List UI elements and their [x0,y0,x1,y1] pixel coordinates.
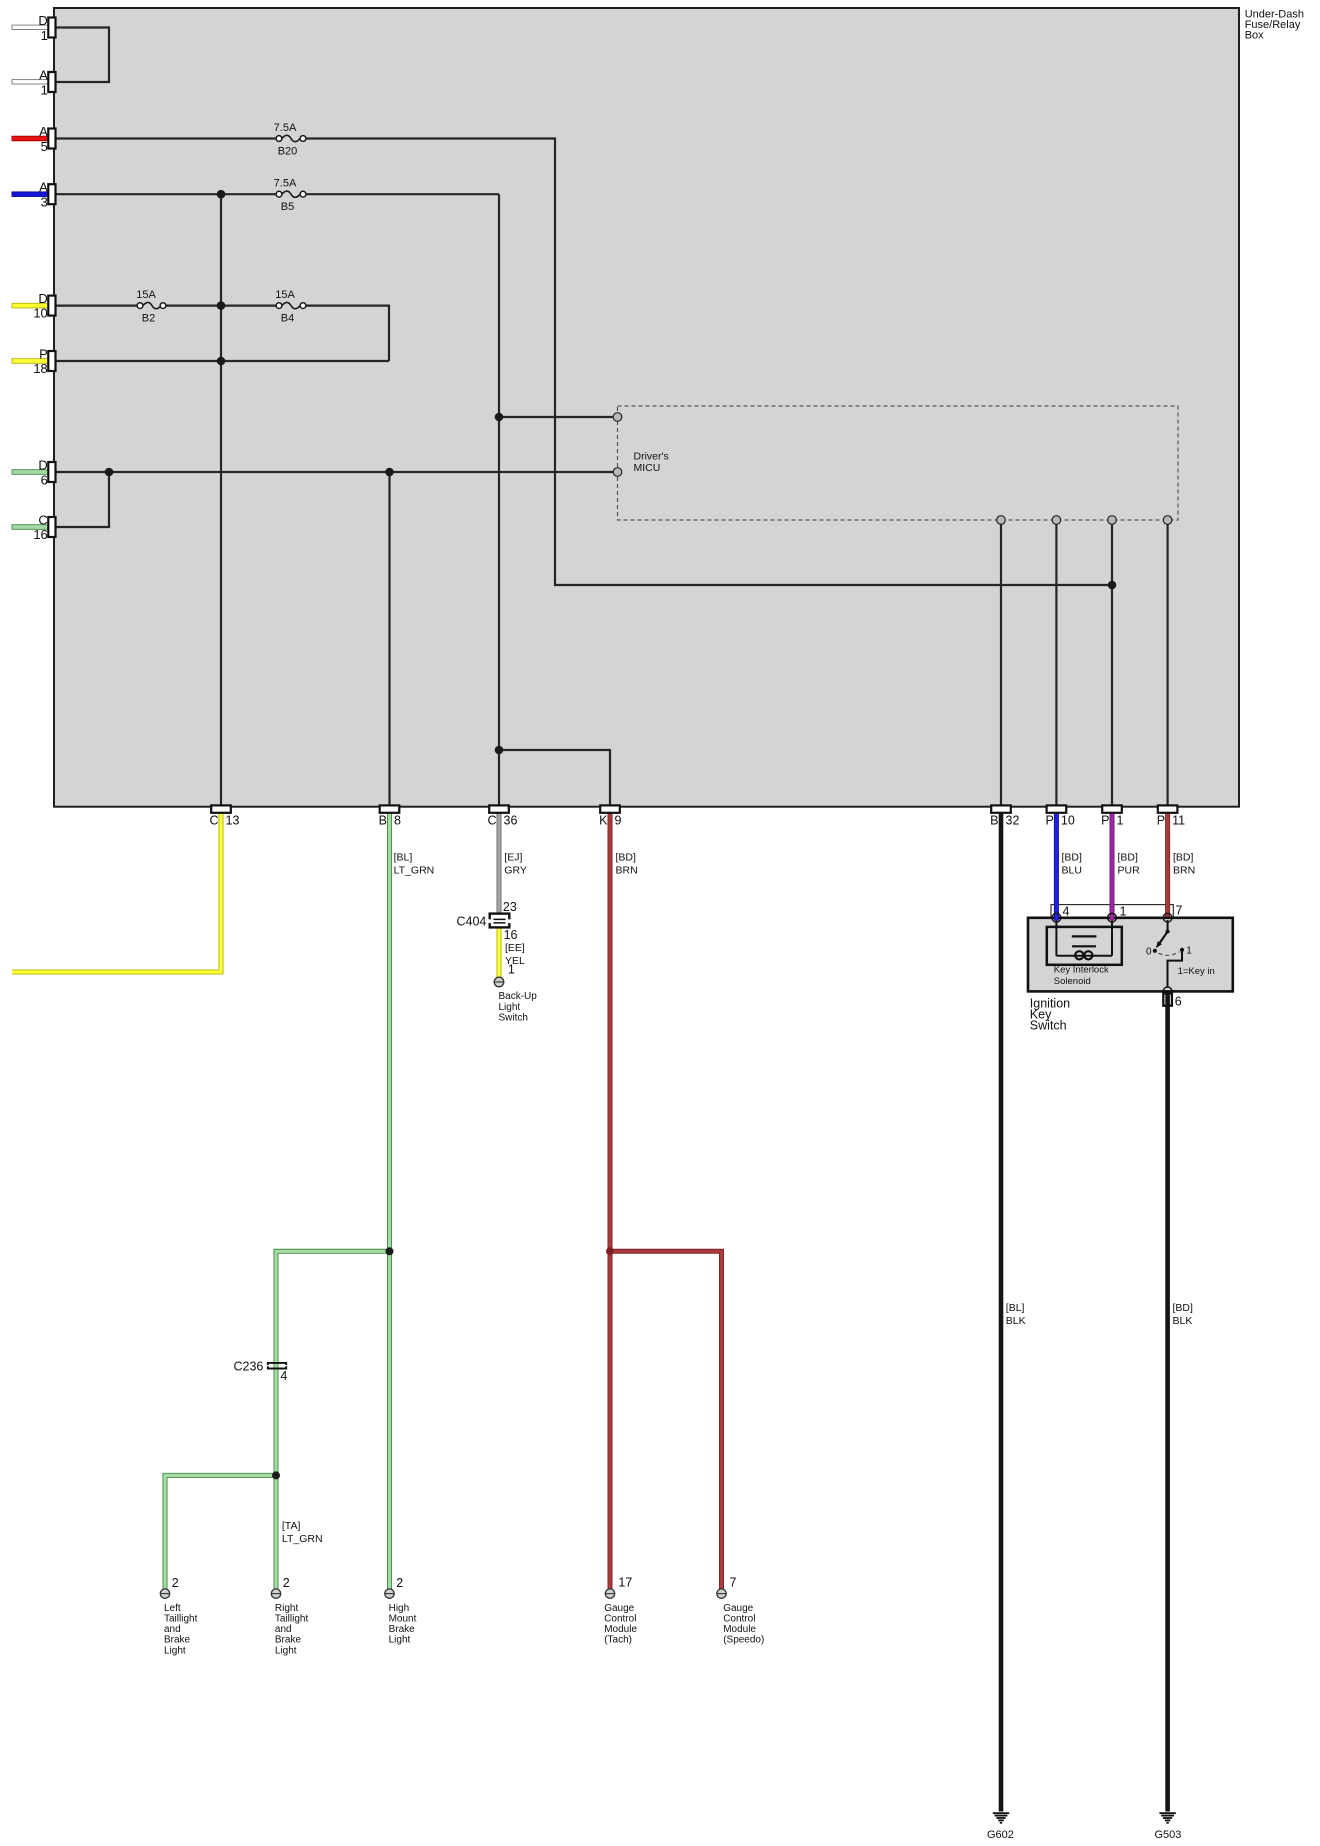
svg-text:15A: 15A [275,289,295,301]
svg-text:P: P [39,347,48,362]
wire fuse B4 output loop to P18 row [306,306,389,361]
wire fuse B2 to fuse B4 [166,305,276,307]
svg-text:17: 17 [618,1576,632,1590]
svg-text:8: 8 [394,814,401,828]
MICU pin lower left [613,468,622,477]
svg-text:IgnitionKeySwitch: IgnitionKeySwitch [1030,996,1070,1032]
svg-text:4: 4 [1063,904,1070,918]
svg-text:1: 1 [1117,814,1124,828]
wire MICU pin to connector P1 [1111,524,1113,806]
under-dash fuse/relay box U100 [54,8,1239,807]
label connector A1 [39,68,48,98]
connector D1 at left edge [48,18,55,38]
svg-text:Under-DashFuse/RelayBox: Under-DashFuse/RelayBox [1245,8,1304,41]
svg-text:36: 36 [504,814,518,828]
wire P18 row [55,360,390,362]
svg-text:D: D [38,458,47,473]
ground G602 [993,1813,1009,1823]
wire MICU pin to connector B32 [1000,524,1002,806]
svg-text:23: 23 [503,900,517,914]
svg-text:C236: C236 [234,1360,264,1374]
node junction green taillight branch [272,1471,280,1479]
svg-text:7: 7 [730,1576,737,1590]
svg-text:2: 2 [172,1576,179,1590]
switch pin 4 [1052,913,1061,922]
svg-text:A: A [39,68,48,83]
wire brown from K9 to Gauge Control Module Tach [608,811,613,1590]
label connector A3 [39,180,48,210]
wire red stub pin A5 [12,136,48,141]
wire white stub pin D1 [12,25,48,29]
connector P1 [1102,805,1122,812]
node junction B20 to P1 [1108,581,1117,590]
wire blue from P10 to switch pin 4 [1054,811,1059,921]
wire light-green stub pin D6 [12,470,48,475]
svg-text:1=Key in: 1=Key in [1178,966,1215,977]
svg-text:RightTaillightandBrakeLight: RightTaillightandBrakeLight [275,1603,309,1656]
wire yellow stub pin P18 [12,359,48,364]
wire D10 row to fuse B2 [55,305,138,307]
connector D10 at left edge [48,296,55,316]
node junction MICU upper branch [495,413,504,422]
svg-text:1: 1 [41,28,48,43]
svg-text:2: 2 [396,1576,403,1590]
svg-text:C: C [38,513,47,528]
ground G503 [1159,1813,1175,1823]
svg-text:3: 3 [41,195,48,210]
terminal left taillight [160,1589,169,1598]
wire brown branch to Gauge Control Module Speedo [608,1251,722,1589]
svg-text:10: 10 [1061,814,1075,828]
wire internal loop D1 to A1 [55,28,110,83]
svg-text:[BD]BLK: [BD]BLK [1173,1302,1194,1327]
svg-text:D: D [38,291,47,306]
ignition key switch connector strip [1051,905,1173,918]
svg-text:[TA]LT_GRN: [TA]LT_GRN [282,1520,323,1545]
connector C236 [268,1363,286,1369]
MICU pin bottom P1 [1108,516,1117,525]
wire vertical B5 output to connector C36 [498,194,500,806]
svg-text:Back-UpLightSwitch: Back-UpLightSwitch [499,991,538,1023]
svg-text:[BD]BRN: [BD]BRN [1173,852,1195,877]
svg-text:32: 32 [1006,814,1020,828]
terminal gauge control module tach [605,1589,614,1598]
wire MICU pin to connector P10 [1055,524,1057,806]
wire D6 row to MICU lower pin [55,471,614,473]
label connector D1 [38,13,47,43]
switch contact 1 [1180,948,1184,952]
svg-text:P: P [1157,814,1165,828]
wire contact 1 to pin 6 [1168,950,1183,988]
svg-text:16: 16 [504,928,518,942]
svg-text:18: 18 [33,361,47,376]
wire vertical D6 node to connector B8 [388,472,390,806]
switch pin 1 [1108,913,1117,922]
svg-text:[BD]PUR: [BD]PUR [1118,852,1141,877]
svg-text:4: 4 [280,1369,287,1383]
wire fuse B20 output to node P1 [306,139,1112,586]
svg-text:G602: G602 [987,1829,1014,1841]
svg-text:HighMountBrakeLight: HighMountBrakeLight [389,1603,417,1646]
connector P18 at left edge [48,351,55,371]
svg-text:6: 6 [41,473,48,488]
terminal back-up light switch [494,977,504,987]
wire fuse B5 output [306,193,499,195]
switch throw dashed arc [1159,952,1180,955]
connector C13 [211,805,231,812]
wire C16 row to D6 node [55,472,110,527]
svg-text:9: 9 [615,814,622,828]
wire black through pin 6 connector [1165,993,1170,1007]
terminal right taillight [271,1589,280,1598]
node junction P18 row [217,357,226,366]
wire branch to MICU upper pin [499,416,613,418]
svg-text:B20: B20 [278,146,298,158]
label connector C16 [33,513,47,543]
wire brown from P11 to switch pin 7 [1165,811,1170,917]
node junction D10 row [217,301,226,310]
svg-text:B5: B5 [281,201,294,213]
svg-text:B: B [379,814,387,828]
connector D6 at left edge [48,462,55,482]
switch pin 6 circle [1163,987,1172,996]
svg-text:15A: 15A [136,289,156,301]
svg-text:7.5A: 7.5A [274,122,297,134]
connector C36 [489,805,509,812]
svg-text:[BD]BLU: [BD]BLU [1062,852,1083,877]
connector B32 [991,805,1011,812]
svg-text:7: 7 [1176,904,1183,918]
svg-text:B4: B4 [281,313,294,325]
node junction C16 branch [105,468,114,477]
node junction K9 branch [495,746,504,755]
terminal high mount brake light [385,1589,394,1598]
connector pin 6 [1163,994,1172,1006]
switch contact 0 [1153,949,1157,953]
svg-text:0: 0 [1146,946,1152,957]
svg-text:7.5A: 7.5A [274,178,297,190]
svg-text:1: 1 [41,83,48,98]
svg-text:P: P [1046,814,1054,828]
connector A1 at left edge [48,72,55,92]
fuse B20 7.5A [274,122,306,158]
svg-text:C: C [487,814,496,828]
MICU pin bottom P11 [1163,516,1172,525]
svg-text:C: C [209,814,218,828]
label connector D10 [33,291,47,321]
svg-text:10: 10 [33,306,47,321]
svg-text:5: 5 [41,139,48,154]
fuse B2 15A [136,289,166,325]
svg-text:A: A [39,124,48,139]
svg-text:K: K [599,814,608,828]
connector A3 at left edge [48,184,55,204]
svg-text:B2: B2 [142,313,155,325]
MICU pin bottom B32 [997,516,1006,525]
svg-text:A: A [39,180,48,195]
svg-text:P: P [1101,814,1109,828]
svg-text:1: 1 [1120,904,1127,918]
svg-text:11: 11 [1172,814,1185,828]
svg-text:[EJ]GRY: [EJ]GRY [504,852,527,877]
wire black from B32 to G602 [999,811,1004,1812]
switch moving contact from pin 7 [1156,920,1170,948]
ignition key switch body [1028,918,1233,992]
wire yellow from C13 [12,811,221,972]
wire light-green from B8 to High Mount Brake Light [387,811,392,1590]
connector C16 at left edge [48,517,55,537]
connector B8 [380,805,400,812]
MICU pin bottom P10 [1052,516,1061,525]
svg-text:GaugeControlModule(Speedo): GaugeControlModule(Speedo) [723,1603,764,1646]
wire MICU pin to connector P11 [1166,524,1168,806]
wire A3 row to fuse B5 [55,193,277,195]
connector A5 at left edge [48,129,55,149]
svg-text:GaugeControlModule(Tach): GaugeControlModule(Tach) [604,1603,637,1646]
wire vertical A3 node to connector C13 [220,194,222,806]
driver's MICU module [618,406,1179,520]
label connector P18 [33,347,47,377]
wire light-green stub pin C16 [12,525,48,530]
wire gray from C36 [497,811,502,914]
connector P10 [1047,805,1067,812]
svg-text:B: B [990,814,998,828]
connector K9 [600,805,620,812]
connector C404 [488,914,511,928]
wire light-green branch to Left Taillight [165,1475,278,1589]
node junction A3 column [217,190,226,199]
connector P11 [1158,805,1178,812]
svg-text:2: 2 [283,1576,290,1590]
svg-text:LeftTaillightandBrakeLight: LeftTaillightandBrakeLight [164,1603,198,1656]
svg-text:1: 1 [1186,945,1192,956]
wire yellow stub pin D10 [12,303,48,308]
label connector D6 [38,458,47,488]
key interlock solenoid [1047,921,1122,965]
svg-text:13: 13 [226,814,240,828]
fuse B5 7.5A [274,178,306,214]
node junction green B8 branch [386,1247,394,1255]
wire branch to connector K9 [499,750,610,806]
wire purple from P1 to switch pin 1 [1110,811,1115,921]
svg-text:C404: C404 [457,914,487,928]
svg-text:[BL]LT_GRN: [BL]LT_GRN [394,852,435,877]
terminal gauge control module speedo [717,1589,726,1598]
svg-text:1: 1 [508,963,515,977]
node junction brown branch [606,1247,614,1255]
svg-text:D: D [38,13,47,28]
wire black from pin 6 to G503 [1165,1006,1170,1812]
wire blue stub pin A3 [12,192,48,197]
svg-text:G503: G503 [1155,1829,1182,1841]
wire white stub pin A1 [12,80,48,84]
node junction B8 branch [385,468,394,477]
svg-text:16: 16 [33,527,47,542]
svg-text:[BL]BLK: [BL]BLK [1006,1302,1026,1327]
switch pin 7 [1163,913,1172,922]
label connector A5 [39,124,48,154]
wire A5 row to fuse B20 [55,137,277,139]
wire yellow below C404 [497,927,502,977]
svg-text:[BD]BRN: [BD]BRN [616,852,638,877]
MICU pin upper left [613,413,622,422]
wire light-green branch to Right Taillight [276,1251,392,1589]
fuse B4 15A [275,289,306,325]
svg-text:6: 6 [1175,994,1182,1008]
